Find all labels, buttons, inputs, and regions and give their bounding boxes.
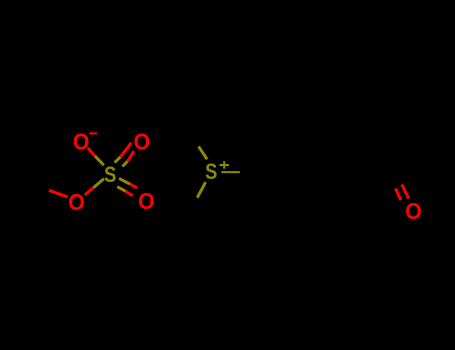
svg-text:O: O <box>134 129 150 155</box>
charge plus on S, horizontal bar <box>220 164 229 166</box>
dimethylsulfonium cation <box>197 146 240 197</box>
atom label O (S=O top-right) <box>134 129 150 155</box>
double bond C=O, line 2 red half <box>402 184 409 198</box>
bond O(ester)-S : olive half <box>94 179 105 188</box>
bond O(-)-S : olive half <box>95 156 104 165</box>
double bond S=O top-right, line 1 red half <box>120 143 131 157</box>
aryl ketone C=O group <box>395 184 421 224</box>
svg-text:O: O <box>138 188 154 214</box>
svg-text:S: S <box>104 164 116 188</box>
double bond S=O bottom-right, line 1 olive half <box>119 178 130 184</box>
atom label S+ (sulfonium sulfur) <box>205 161 217 185</box>
svg-text:S: S <box>205 161 217 185</box>
double bond S=O bottom-right, line 1 red half <box>130 184 137 188</box>
methyl sulfate anion <box>49 129 155 216</box>
double bond S=O top-right, line 2 red half <box>128 151 134 161</box>
atom label O- (sulfate anionic oxygen) <box>73 129 89 155</box>
bond S+-C(aryl) right, olive half <box>221 171 240 173</box>
bond O(ester)-S : red half <box>85 188 94 195</box>
charge plus on S, vertical bar <box>223 161 225 169</box>
bond O(-)-S : red half <box>88 148 95 156</box>
atom label O (S=O bottom-right) <box>138 188 154 214</box>
bond S+-CH3 lower-left, olive half <box>197 182 205 198</box>
double bond C=O, line 1 red half <box>395 188 401 200</box>
double bond S=O bottom-right, line 2 red half <box>126 191 133 196</box>
double bond S=O bottom-right, line 2 olive half <box>117 187 125 192</box>
bond S+-CH3 upper-left, olive half <box>199 146 208 159</box>
double bond S=O top-right, line 1 olive half <box>115 157 121 163</box>
bond CH3-O (ester), red half <box>49 190 68 197</box>
svg-text:O: O <box>405 198 421 224</box>
atom label S (sulfate sulfur) <box>104 164 116 188</box>
svg-text:O: O <box>68 189 84 215</box>
atom label O (ester oxygen) <box>68 189 84 215</box>
atom label O (ketone oxygen) <box>405 198 421 224</box>
double bond S=O top-right, line 2 olive half <box>122 161 127 166</box>
svg-text:O: O <box>73 129 89 155</box>
charge minus on O <box>89 132 97 134</box>
